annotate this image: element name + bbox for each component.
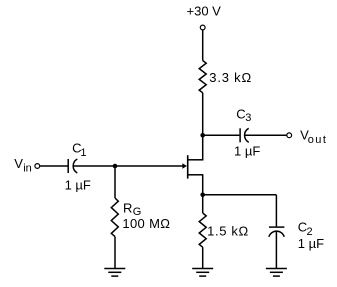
svg-text:3: 3	[245, 112, 251, 124]
ground (below RG)	[104, 269, 125, 277]
resistor 3.3 kOhm	[199, 61, 206, 93]
wire source node to C2 (horizontal)	[203, 194, 277, 196]
transistor Q1 N-channel JFET	[182, 155, 203, 178]
label Vin	[14, 156, 32, 175]
label Vout	[300, 127, 327, 146]
svg-text:C: C	[236, 107, 245, 122]
node drain junction	[200, 133, 205, 138]
wire source to source node	[202, 175, 204, 195]
input terminal Vin	[35, 164, 40, 169]
label RG	[123, 201, 141, 218]
wire +30V terminal to 3.3k resistor	[202, 30, 204, 61]
capacitor C1	[68, 159, 77, 173]
wire gate node to JFET gate	[115, 165, 183, 167]
ground (below 1.5k)	[192, 269, 213, 277]
resistor 1.5 kOhm	[199, 213, 206, 247]
svg-text:1 µF: 1 µF	[65, 178, 91, 193]
svg-text:+30 V: +30 V	[187, 3, 222, 18]
capacitor C3	[240, 128, 249, 142]
capacitor C2	[269, 227, 285, 237]
svg-text:100 MΩ: 100 MΩ	[122, 216, 170, 231]
svg-text:out: out	[308, 134, 328, 146]
svg-text:R: R	[123, 201, 132, 216]
wire Vin terminal to C1	[40, 165, 68, 167]
node gate junction	[113, 164, 118, 169]
wire drain node to C3	[203, 134, 240, 136]
wire 3.3k resistor to drain	[202, 93, 204, 160]
wire C2 to ground	[275, 231, 277, 268]
label C3	[236, 107, 251, 125]
svg-text:1 µF: 1 µF	[234, 144, 260, 159]
label C2	[298, 220, 313, 238]
power terminal +30 V	[200, 25, 205, 30]
wire C3 to Vout terminal	[244, 134, 286, 136]
wire source node to 1.5k resistor	[202, 195, 204, 213]
svg-text:in: in	[23, 163, 32, 175]
wire 1.5k resistor to ground	[202, 247, 204, 268]
svg-text:V: V	[14, 156, 23, 171]
ground (below C2)	[266, 269, 287, 277]
svg-text:1.5 kΩ: 1.5 kΩ	[207, 224, 249, 239]
output terminal Vout	[287, 133, 292, 138]
wire C1 to gate node	[73, 165, 115, 167]
wire down to C2 top plate	[275, 195, 277, 227]
svg-text:1 µF: 1 µF	[298, 236, 324, 251]
svg-text:1: 1	[80, 147, 86, 159]
node source junction	[200, 193, 205, 198]
wire RG top (gate node down)	[114, 166, 116, 198]
resistor RG 100 MOhm	[111, 198, 118, 237]
label C1	[72, 141, 86, 159]
svg-text:3.3 kΩ: 3.3 kΩ	[209, 70, 252, 85]
wire RG to ground	[114, 237, 116, 269]
